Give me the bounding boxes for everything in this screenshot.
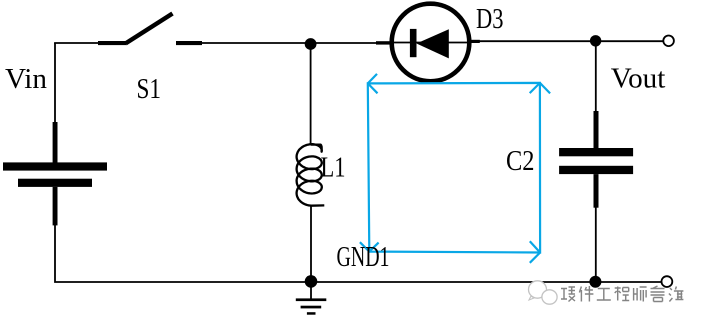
svg-text:GND1: GND1 <box>337 242 390 273</box>
svg-text:Vout: Vout <box>611 64 666 95</box>
svg-text:Vin: Vin <box>5 64 47 95</box>
svg-text:S1: S1 <box>137 74 162 105</box>
svg-text:L1: L1 <box>321 153 346 184</box>
svg-text:D3: D3 <box>476 4 504 35</box>
svg-text:C2: C2 <box>506 146 535 177</box>
